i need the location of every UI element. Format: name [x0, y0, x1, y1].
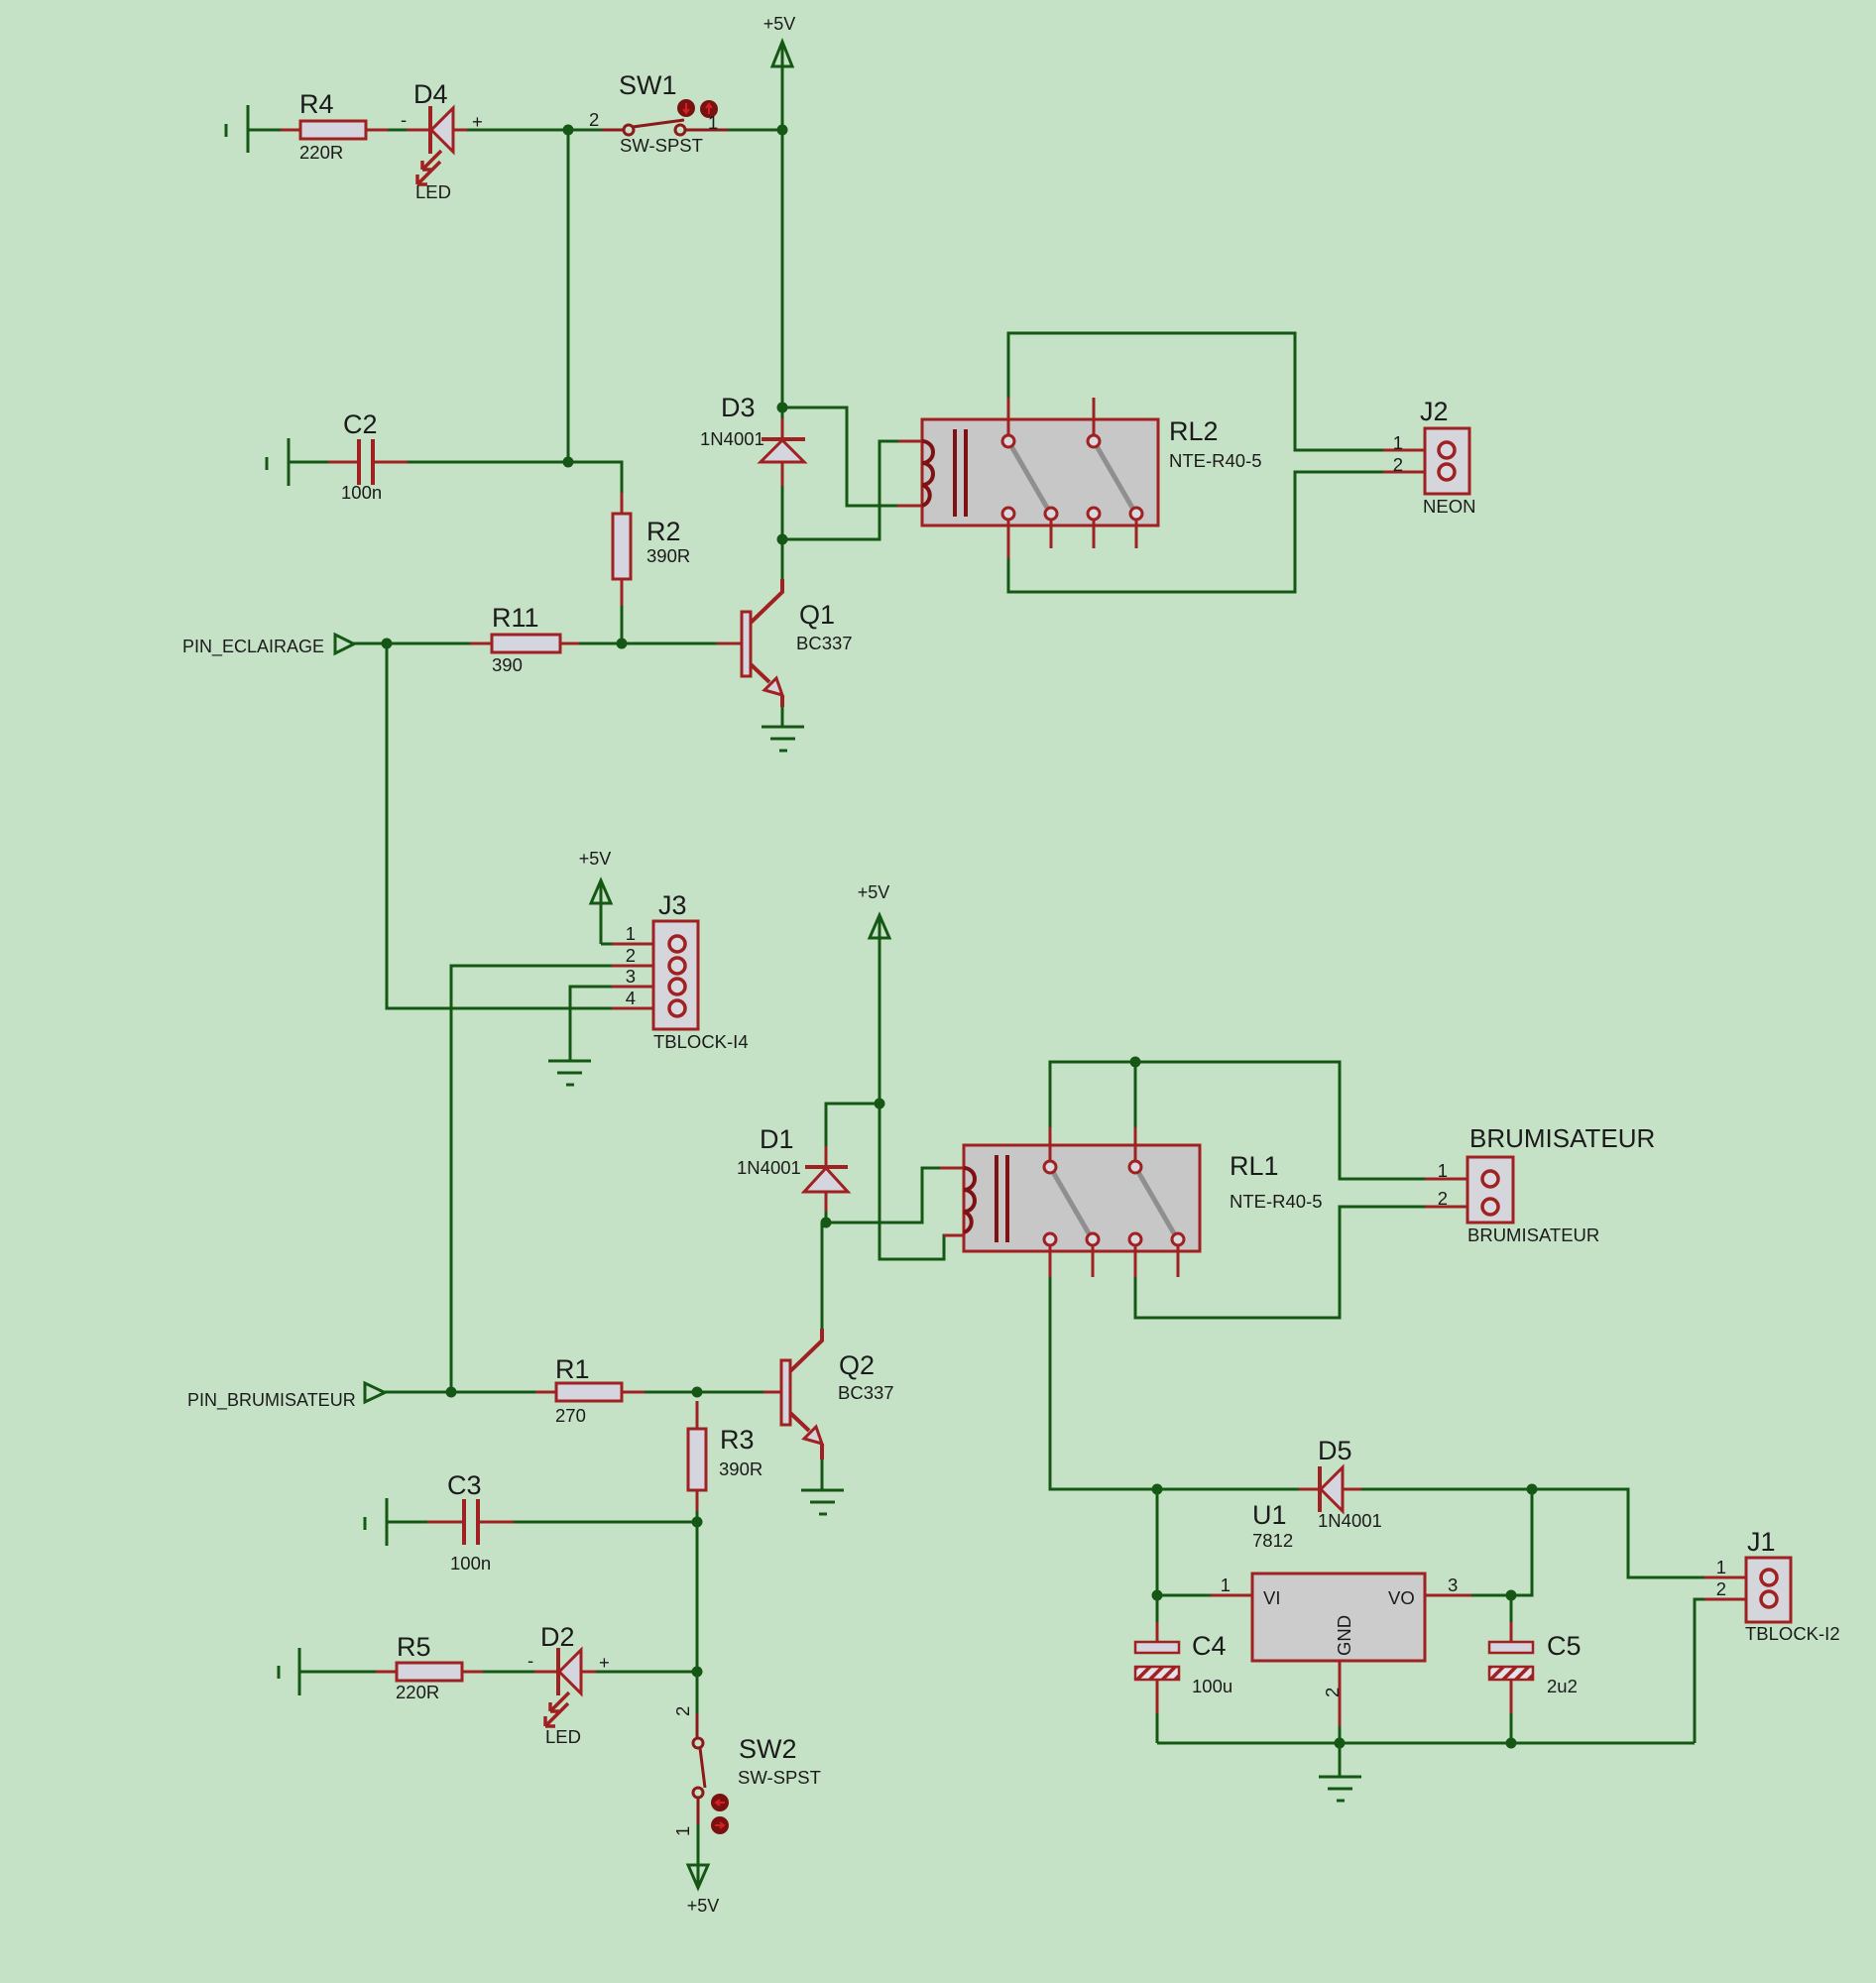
connector BRUMISATEUR [1467, 1157, 1513, 1223]
connector J2 NEON [1425, 428, 1469, 494]
pin RL2 coil bottom [897, 505, 922, 508]
pin U1 1 VI [1211, 1594, 1252, 1597]
svg-text:SW-SPST: SW-SPST [620, 135, 703, 156]
wire Q2 emitter to ground [821, 1459, 824, 1490]
wire +5V to RL2 coil bottom [782, 408, 897, 506]
regulator U1 7812 [1252, 1574, 1425, 1661]
pin U1 2 GND [1339, 1661, 1342, 1726]
svg-text:Q2: Q2 [839, 1350, 875, 1380]
svg-text:100u: 100u [1192, 1676, 1232, 1696]
pin R1 left [535, 1391, 556, 1394]
svg-text:BRUMISATEUR: BRUMISATEUR [1467, 1225, 1599, 1245]
wire C4 bottom to rail [1156, 1713, 1159, 1743]
resistor R1 [556, 1383, 622, 1401]
wire D1 cathode to +5V node M [826, 1104, 879, 1146]
pin D3 anode [781, 462, 784, 486]
svg-text:+5V: +5V [763, 14, 796, 34]
pin RL2 contact bottom1 [1007, 520, 1010, 558]
wire R5 to D2 [483, 1671, 534, 1674]
pin SW2 top [696, 1713, 699, 1738]
pin R3 bottom [696, 1490, 699, 1511]
pin R4 left [281, 129, 300, 132]
pin BRUMISATEUR 1 [1425, 1178, 1483, 1181]
pin D5 cathode [1299, 1488, 1319, 1491]
pin C4 bottom [1156, 1680, 1159, 1713]
ground GND1 (R4 row) [226, 105, 248, 153]
transistor Q1 BC337 [742, 579, 782, 707]
svg-text:1N4001: 1N4001 [700, 428, 764, 449]
svg-text:1: 1 [1716, 1557, 1726, 1577]
wire node Q to U1 pin1 [1157, 1594, 1211, 1597]
wire PIN_BRUMISATEUR net to J3 pin2 [451, 966, 612, 1392]
pin Q1 base [717, 642, 743, 645]
relay RL2 NTE-R40-5 [922, 419, 1158, 525]
pin R4 right [366, 129, 388, 132]
pin J1 1 [1704, 1576, 1762, 1579]
wire node G to R11 [387, 642, 470, 645]
power +5V top arrow [772, 42, 792, 130]
wire bottom ground rail [1157, 1742, 1695, 1745]
svg-text:2: 2 [1322, 1688, 1343, 1697]
wire R3 bottom to node K [696, 1511, 699, 1522]
wire RL1 top contacts to BRUMISATEUR pin1 [1050, 1062, 1425, 1179]
svg-text:PIN_BRUMISATEUR: PIN_BRUMISATEUR [187, 1390, 356, 1411]
wire node I to Q2 base [697, 1391, 763, 1394]
svg-text:R1: R1 [555, 1354, 590, 1384]
LED D2 [545, 1648, 581, 1726]
svg-text:2: 2 [626, 945, 636, 966]
wire R4 to D4 [388, 129, 407, 132]
svg-text:2: 2 [589, 109, 599, 130]
svg-text:1: 1 [1438, 1160, 1448, 1181]
svg-text:+: + [599, 1652, 610, 1673]
wire R11 to node F [579, 642, 622, 645]
pin BRUMISATEUR 2 [1425, 1206, 1483, 1209]
capacitor C4 100u [1135, 1642, 1179, 1680]
svg-text:R2: R2 [646, 517, 681, 546]
pin Q2 base [763, 1391, 782, 1394]
svg-text:GND: GND [1334, 1615, 1354, 1656]
svg-text:+5V: +5V [858, 882, 890, 902]
pin R3 top [696, 1401, 699, 1429]
svg-text:1N4001: 1N4001 [737, 1157, 801, 1178]
pin C2 right [375, 461, 408, 464]
node I junction (703,1404) [692, 1387, 703, 1398]
pin R2 top [621, 493, 624, 514]
LED D4 [417, 106, 453, 184]
pin U1 3 VO [1425, 1594, 1471, 1597]
capacitor C5 2u2 [1489, 1642, 1533, 1680]
svg-text:TBLOCK-I2: TBLOCK-I2 [1745, 1623, 1840, 1644]
svg-text:D2: D2 [540, 1622, 575, 1652]
pin R1 right [622, 1391, 645, 1394]
svg-text:R3: R3 [720, 1425, 755, 1455]
pin C4 top [1156, 1622, 1159, 1642]
node L junction (703,1686) [692, 1667, 703, 1678]
pin RL2 coil top [898, 440, 922, 443]
diode D1 1N4001 [804, 1167, 848, 1192]
wire C2 to node E [408, 461, 568, 464]
wire C4 top [1156, 1595, 1159, 1622]
power +5V down arrow (SW2) [688, 1865, 708, 1888]
svg-text:1: 1 [672, 1826, 693, 1836]
SW2 toggle buttons [711, 1794, 729, 1834]
ground GND8 (U1) [1319, 1777, 1361, 1801]
svg-text:SW2: SW2 [739, 1734, 797, 1764]
svg-text:RL2: RL2 [1169, 416, 1219, 446]
pin R11 left [470, 642, 492, 645]
wire node E to R2 top [568, 462, 622, 493]
ground GND3 (Q1 emitter) [762, 727, 804, 751]
power +5V arrow (J3) [591, 880, 611, 944]
wire GND1 to R4 [249, 129, 281, 132]
node O junction (1167,1502) [1152, 1484, 1163, 1495]
svg-text:Q1: Q1 [799, 600, 835, 630]
svg-text:D1: D1 [760, 1124, 794, 1154]
wire node D to RL2 coil top [782, 441, 898, 539]
wire node L down to SW2 [696, 1672, 699, 1713]
node C junction (789,411) [777, 403, 788, 413]
svg-text:+5V: +5V [687, 1896, 720, 1916]
pin RL2 contact top1 [1007, 398, 1010, 435]
pin D2 right [581, 1671, 596, 1674]
wire C2 vertical from node A [567, 130, 570, 462]
svg-text:220R: 220R [299, 142, 343, 163]
svg-text:D3: D3 [721, 393, 756, 422]
ground GND6 (C3 row) [365, 1498, 387, 1546]
svg-text:2: 2 [1716, 1578, 1726, 1599]
svg-text:C2: C2 [343, 409, 378, 439]
svg-text:390R: 390R [646, 545, 690, 566]
connector J1 TBLOCK-I2 [1746, 1558, 1791, 1622]
svg-text:-: - [401, 109, 407, 130]
svg-text:U1: U1 [1252, 1500, 1287, 1530]
pin RL1 contact bottom1 [1049, 1245, 1052, 1277]
wire D5 to node P [1361, 1488, 1532, 1491]
pin J3 3 [612, 986, 670, 989]
svg-text:TBLOCK-I4: TBLOCK-I4 [653, 1031, 749, 1052]
wire R1 to node I [645, 1391, 697, 1394]
svg-text:1: 1 [1221, 1575, 1231, 1595]
svg-text:J3: J3 [658, 890, 687, 920]
capacitor C3 100n [464, 1499, 478, 1545]
wire node K down to node L [696, 1522, 699, 1672]
svg-text:R4: R4 [299, 89, 334, 119]
pin RL1 contact top1 [1049, 1127, 1052, 1161]
wire U1 VO to node P [1471, 1489, 1532, 1595]
svg-text:VI: VI [1263, 1587, 1280, 1608]
svg-text:BC337: BC337 [838, 1382, 894, 1403]
svg-text:NTE-R40-5: NTE-R40-5 [1230, 1191, 1323, 1212]
pin RL1 contact bottom3 [1134, 1245, 1137, 1277]
wire SW1 to +5V rail [728, 129, 782, 132]
wire C3 to node K [514, 1521, 697, 1524]
wire D3 anode to node D [781, 486, 784, 539]
svg-text:1N4001: 1N4001 [1318, 1510, 1382, 1531]
svg-text:-: - [528, 1650, 533, 1671]
pin D4 right [453, 129, 467, 132]
svg-text:7812: 7812 [1252, 1530, 1293, 1551]
svg-text:VO: VO [1388, 1587, 1415, 1608]
pin C5 bottom [1510, 1680, 1513, 1713]
ground GND4 (J3 pin3) [548, 1061, 591, 1085]
svg-text:R11: R11 [492, 603, 539, 633]
node E junction (573,466) [563, 457, 574, 468]
pin J3 2 [612, 965, 670, 968]
pin RL1 contact bottom2 [1092, 1245, 1095, 1277]
ground GND5 (Q2 emitter) [801, 1490, 844, 1514]
pin C3 right [480, 1521, 514, 1524]
wire node O to D5 [1157, 1488, 1299, 1491]
pin D4 left [407, 129, 429, 132]
wire terminal to node H [385, 1391, 451, 1394]
svg-text:1: 1 [708, 112, 718, 133]
svg-text:+5V: +5V [579, 849, 612, 869]
pin R5 right [462, 1671, 483, 1674]
svg-text:J1: J1 [1747, 1527, 1776, 1557]
svg-text:SW1: SW1 [619, 70, 677, 100]
wire R2 bottom to node F [621, 606, 624, 643]
svg-text:LED: LED [545, 1726, 581, 1747]
power +5V arrow (Q2 relay) [870, 915, 889, 1104]
svg-text:NEON: NEON [1423, 496, 1475, 517]
wire RL1 bottom3 to BRUMISATEUR pin2 [1135, 1207, 1425, 1318]
svg-text:NTE-R40-5: NTE-R40-5 [1169, 450, 1262, 471]
pin R5 left [376, 1671, 397, 1674]
SW1 toggle buttons [677, 99, 718, 118]
svg-text:RL1: RL1 [1230, 1151, 1279, 1181]
wire GND6 to C3 [388, 1521, 427, 1524]
svg-text:3: 3 [626, 966, 636, 987]
node A junction (573,131) [563, 125, 574, 136]
svg-text:100n: 100n [450, 1553, 491, 1574]
wire Q1 emitter to ground [781, 707, 784, 727]
wire node H to R1 [451, 1391, 535, 1394]
pin RL2 contact bottom2 [1050, 520, 1053, 548]
wire node P to J1 pin1 [1532, 1489, 1704, 1577]
wire D2 to node L [596, 1671, 697, 1674]
terminal PIN_ECLAIRAGE [335, 635, 354, 653]
pin C3 left [427, 1521, 462, 1524]
svg-text:2u2: 2u2 [1547, 1676, 1578, 1696]
wire GND2 to C2 [290, 461, 328, 464]
node T junction (1524,1758) [1506, 1738, 1517, 1749]
node B junction (789,131) [777, 125, 788, 136]
node S junction (1351,1758) [1335, 1738, 1346, 1749]
svg-text:D5: D5 [1318, 1436, 1352, 1465]
pin RL1 contact bottom4 [1177, 1245, 1180, 1277]
resistor R2 [613, 514, 631, 579]
wire D4 to node A [467, 129, 568, 132]
resistor R3 [688, 1429, 706, 1490]
node H junction (455,1404) [446, 1387, 457, 1398]
svg-text:+: + [472, 111, 483, 132]
svg-text:270: 270 [555, 1405, 586, 1426]
wire node A to SW1 [568, 129, 602, 132]
wire +5V rail down to D3 [781, 130, 784, 418]
ground GND7 (D2 row) [279, 1648, 299, 1695]
node D junction (789,544) [777, 534, 788, 545]
resistor R4 [300, 121, 366, 139]
svg-text:C3: C3 [447, 1470, 482, 1500]
svg-text:3: 3 [1448, 1575, 1458, 1595]
node K junction (703,1535) [692, 1517, 703, 1528]
svg-text:2: 2 [672, 1706, 693, 1716]
wire +5V node M to RL1 coil bottom [879, 1104, 949, 1259]
pin J3 4 [612, 1007, 670, 1010]
svg-text:2: 2 [1393, 454, 1403, 475]
wire node J to RL1 coil top [826, 1168, 940, 1223]
pin RL1 coil bottom [944, 1234, 964, 1237]
wire rail to ground [1339, 1743, 1342, 1777]
svg-text:R5: R5 [397, 1632, 431, 1662]
transistor Q2 BC337 [781, 1329, 822, 1459]
resistor R5 [397, 1663, 462, 1681]
svg-text:100n: 100n [341, 482, 382, 503]
svg-text:LED: LED [415, 181, 451, 202]
pin J2 2 [1383, 471, 1440, 474]
capacitor C2 100n [359, 439, 373, 485]
diode D5 1N4001 [1320, 1466, 1343, 1512]
wire RL2 top1 to J2 pin1 [1008, 333, 1383, 450]
node J junction (833,1233) [821, 1218, 832, 1228]
node N junction (1145,1071) [1130, 1057, 1141, 1068]
svg-text:1: 1 [1393, 432, 1403, 453]
pin R2 bottom [621, 579, 624, 606]
node Q junction (1167,1609) [1152, 1590, 1163, 1601]
pin J1 2 [1704, 1598, 1762, 1601]
ground GND2 (C2 row) [267, 438, 289, 486]
wire RL1 top2 up [1134, 1062, 1137, 1127]
wire C5 bottom to rail [1510, 1713, 1513, 1743]
wire +5V to J3 pin1 [601, 943, 612, 946]
wire SW2 to +5V down arrow [697, 1824, 700, 1885]
wire C5 top [1510, 1595, 1513, 1622]
pin RL2 contact top2 [1093, 398, 1096, 435]
wire J1 pin2 down to bottom rail [1695, 1599, 1704, 1743]
diode D3 1N4001 [761, 439, 805, 462]
wire node F to Q1 base [622, 642, 717, 645]
node F junction (627,649) [617, 639, 628, 649]
svg-text:SW-SPST: SW-SPST [738, 1767, 821, 1788]
svg-text:390: 390 [492, 654, 523, 675]
pin D1 cathode [825, 1146, 828, 1167]
svg-text:C4: C4 [1192, 1631, 1227, 1661]
wire RL1 bottom1 down to node O [1050, 1277, 1157, 1489]
svg-text:1: 1 [626, 923, 636, 944]
svg-text:BRUMISATEUR: BRUMISATEUR [1469, 1123, 1655, 1153]
pin RL1 coil top [940, 1167, 964, 1170]
relay RL1 NTE-R40-5 [964, 1145, 1200, 1251]
pin SW1 left [602, 129, 624, 132]
svg-text:C5: C5 [1547, 1631, 1582, 1661]
node G junction (390,649) [382, 639, 393, 649]
svg-text:PIN_ECLAIRAGE: PIN_ECLAIRAGE [182, 637, 324, 657]
pin R11 right [560, 642, 579, 645]
resistor R11 [492, 635, 560, 652]
pin RL1 contact top2 [1134, 1127, 1137, 1161]
pin C2 left [328, 461, 357, 464]
terminal PIN_BRUMISATEUR [365, 1383, 385, 1402]
switch SW1 [624, 120, 728, 135]
node M junction (887,1113) [875, 1099, 885, 1109]
pin C5 top [1510, 1622, 1513, 1642]
connector J3 TBLOCK-I4 [653, 921, 698, 1029]
wire RL2 bottom1 to J2 pin2 [1008, 472, 1383, 592]
node R junction (1524,1609) [1506, 1590, 1517, 1601]
svg-text:4: 4 [626, 988, 636, 1008]
wire J3 pin3 to ground [570, 987, 612, 1061]
switch SW2 [693, 1738, 705, 1824]
wire U1 GND to bottom rail [1339, 1726, 1342, 1743]
wire terminal to node G [354, 642, 387, 645]
wire node O down to U1 VI [1156, 1489, 1159, 1595]
svg-text:BC337: BC337 [796, 633, 853, 653]
pin RL2 contact bottom4 [1135, 520, 1138, 548]
svg-text:2: 2 [1438, 1188, 1448, 1209]
pin D1 anode [825, 1192, 828, 1212]
wire node D to Q1 collector [781, 539, 784, 580]
wire Q2 collector to node J [821, 1223, 824, 1329]
wire PIN_ECLAIRAGE net to J3 pin4 [387, 643, 612, 1008]
svg-text:390R: 390R [719, 1458, 762, 1479]
pin RL2 contact bottom3 [1093, 520, 1096, 548]
pin J2 1 [1383, 449, 1440, 452]
wire D1 anode to node J [825, 1212, 828, 1223]
svg-text:220R: 220R [396, 1682, 439, 1702]
svg-text:D4: D4 [413, 79, 448, 109]
node P junction (1545,1502) [1527, 1484, 1538, 1495]
svg-text:J2: J2 [1420, 397, 1449, 426]
pin D5 anode [1343, 1488, 1361, 1491]
pin D2 left [534, 1671, 557, 1674]
wire GND7 to R5 [300, 1671, 376, 1674]
pin D3 cathode [781, 418, 784, 439]
pin J3 1 [612, 943, 670, 946]
